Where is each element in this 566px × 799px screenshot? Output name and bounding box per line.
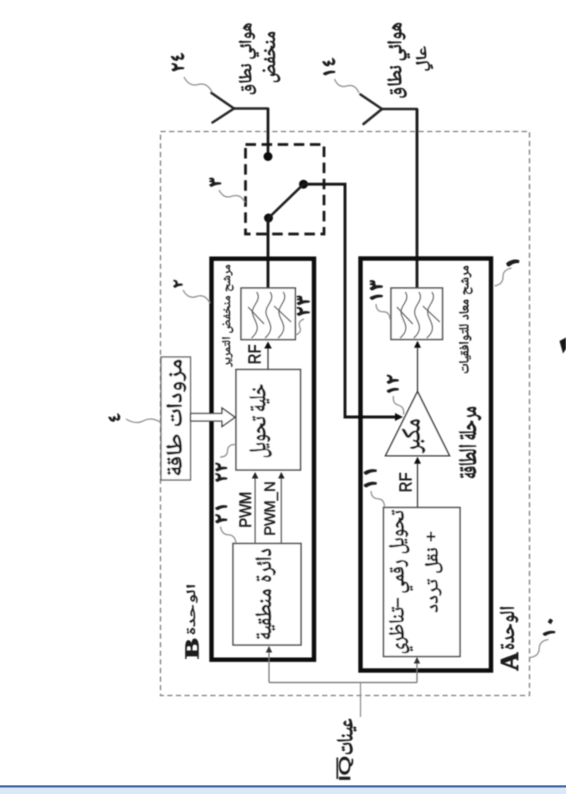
PWM_N arrow logic to switching cell [280, 478, 282, 544]
label antenna 14 caption line 1 [387, 23, 409, 98]
RF arrow DAC to amplifier [417, 463, 419, 508]
leader line ref 2 [183, 290, 210, 303]
filter box 23 (low-pass filter) [241, 288, 295, 340]
wire switch bottom contact to filter 23 [267, 218, 270, 288]
label ref number 14 [323, 58, 335, 75]
wire switch to amplifier 12 [304, 184, 396, 417]
label ref number 23 [297, 296, 309, 315]
label antenna 24 caption line 2 [263, 32, 280, 82]
label PWM_N label [264, 482, 277, 534]
leader line ref 1 [495, 268, 512, 286]
label ref number 4 [109, 414, 120, 422]
DAC + frequency translation box 11 [384, 508, 461, 657]
wire antenna 24 feed to switch [267, 109, 270, 154]
label ref number 10 [543, 619, 555, 636]
bottom rule dark blue [0, 785, 566, 787]
label IQ samples caption latin [339, 757, 353, 780]
leader line ref 24 [184, 77, 212, 92]
IQ underline (rotated) [336, 758, 338, 780]
label ref number 2 [174, 280, 183, 287]
label ref number 21 [216, 505, 227, 522]
leader line ref 12 [393, 396, 403, 415]
label ref number 12 [387, 375, 398, 392]
label switching cell caption [249, 385, 271, 458]
label logic circuit caption [255, 549, 275, 639]
switch contact node top [264, 152, 273, 161]
leader line ref 4 [126, 419, 161, 423]
wire antenna 14 feed to harmonic filter 13 [416, 109, 419, 288]
IQ input bus wire [269, 682, 417, 684]
antenna 14 (high band) symbol [361, 95, 418, 125]
label amplifier caption [402, 419, 425, 453]
hollow power arrow from supplies into unit B [191, 408, 236, 427]
label ref number 3 [210, 178, 221, 186]
leader line ref 3 [219, 190, 245, 203]
leader line ref 11 [371, 491, 385, 507]
label antenna 14 caption line 2 [416, 46, 433, 70]
label low-pass filter caption [222, 265, 234, 367]
leader line ref 10 [530, 640, 549, 658]
switching cell box 22 [236, 370, 301, 471]
switch 3 dashed box [246, 145, 325, 235]
label unit A caption arabic [500, 607, 518, 649]
unit A thick box [361, 259, 492, 671]
wire IQ bus up into DAC 11 [416, 663, 418, 683]
label ref number 22 [216, 463, 227, 481]
label power stage caption [459, 407, 481, 478]
switch contact node right [299, 180, 308, 189]
label PWM label [239, 493, 250, 527]
label DAC caption line 1 [389, 510, 413, 653]
leader line ref 14 [335, 79, 360, 93]
label unit A caption letter [501, 652, 518, 670]
power supplies box 4 [161, 357, 191, 480]
leader line ref 23 [296, 319, 305, 335]
label IQ samples caption arabic [337, 719, 356, 754]
amplifier 12 triangle [386, 392, 450, 456]
label unit B caption letter [185, 639, 198, 659]
label unit B caption arabic [186, 585, 197, 634]
label DAC caption line 2 [425, 532, 443, 612]
filter box 13 (harmonic rejection filter) [391, 288, 443, 340]
label ref number 13 [370, 281, 382, 300]
IQ input stub wire [360, 683, 362, 718]
leader line ref 22 [220, 445, 235, 458]
logic circuit box 21 [233, 544, 301, 646]
switch arm wire [269, 184, 304, 218]
label ref number 24 [171, 53, 184, 71]
unit B thick box [212, 259, 315, 660]
label antenna 24 caption line 1 [239, 23, 259, 94]
bottom light blue band [0, 788, 566, 794]
wire IQ bus up into logic circuit 21 [268, 652, 270, 683]
RF arrow switching cell to filter 23 [267, 348, 269, 370]
label ref number 1 [507, 260, 519, 266]
label power supplies caption [166, 360, 185, 475]
wire amplifier output up to filter 13 [417, 347, 419, 392]
PWM arrow logic to switching cell [254, 478, 256, 544]
switch contact node bottom [264, 214, 273, 223]
antenna 24 (low band) symbol [212, 93, 269, 123]
label RF label unit A [399, 473, 411, 491]
label ref number 11 [364, 469, 376, 486]
leader line ref 13 [376, 304, 390, 320]
label harmonic filter caption [459, 266, 473, 373]
leader line ref 21 [221, 527, 237, 544]
label RF label unit B [248, 345, 260, 363]
clipped figure-number mark at right edge [560, 338, 566, 354]
outer dashed enclosure (module 10) [161, 132, 530, 696]
